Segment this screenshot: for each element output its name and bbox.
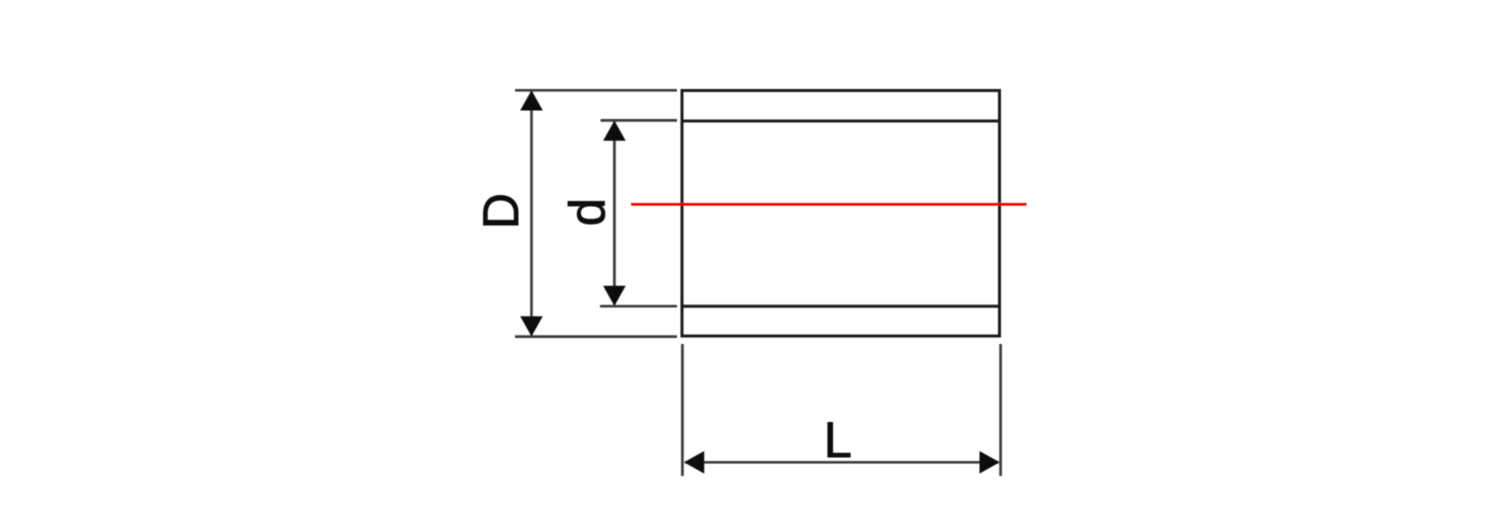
arrowhead D bottom <box>520 316 543 336</box>
dimension line L <box>685 461 999 464</box>
extension line L left <box>681 344 684 476</box>
arrowhead L left <box>684 451 704 474</box>
extension line D bottom <box>515 335 677 338</box>
svg-text:D: D <box>473 193 529 229</box>
red centerline <box>631 203 1027 206</box>
extension line L right <box>999 344 1002 476</box>
arrowhead D top <box>520 90 543 110</box>
svg-text:d: d <box>559 198 616 226</box>
svg-text:L: L <box>824 411 852 468</box>
arrowhead d bottom <box>603 286 626 306</box>
arrowhead d top <box>603 121 626 141</box>
arrowhead L right <box>980 451 1000 474</box>
extension line D top <box>515 89 677 92</box>
dimension line d <box>613 122 616 305</box>
tube inner bore line bottom <box>681 305 1002 308</box>
extension line d top <box>601 119 678 122</box>
tube body outline <box>682 91 1000 337</box>
dimension line D <box>530 92 533 335</box>
tube inner bore line top <box>681 120 1002 123</box>
extension line d bottom <box>600 305 677 308</box>
